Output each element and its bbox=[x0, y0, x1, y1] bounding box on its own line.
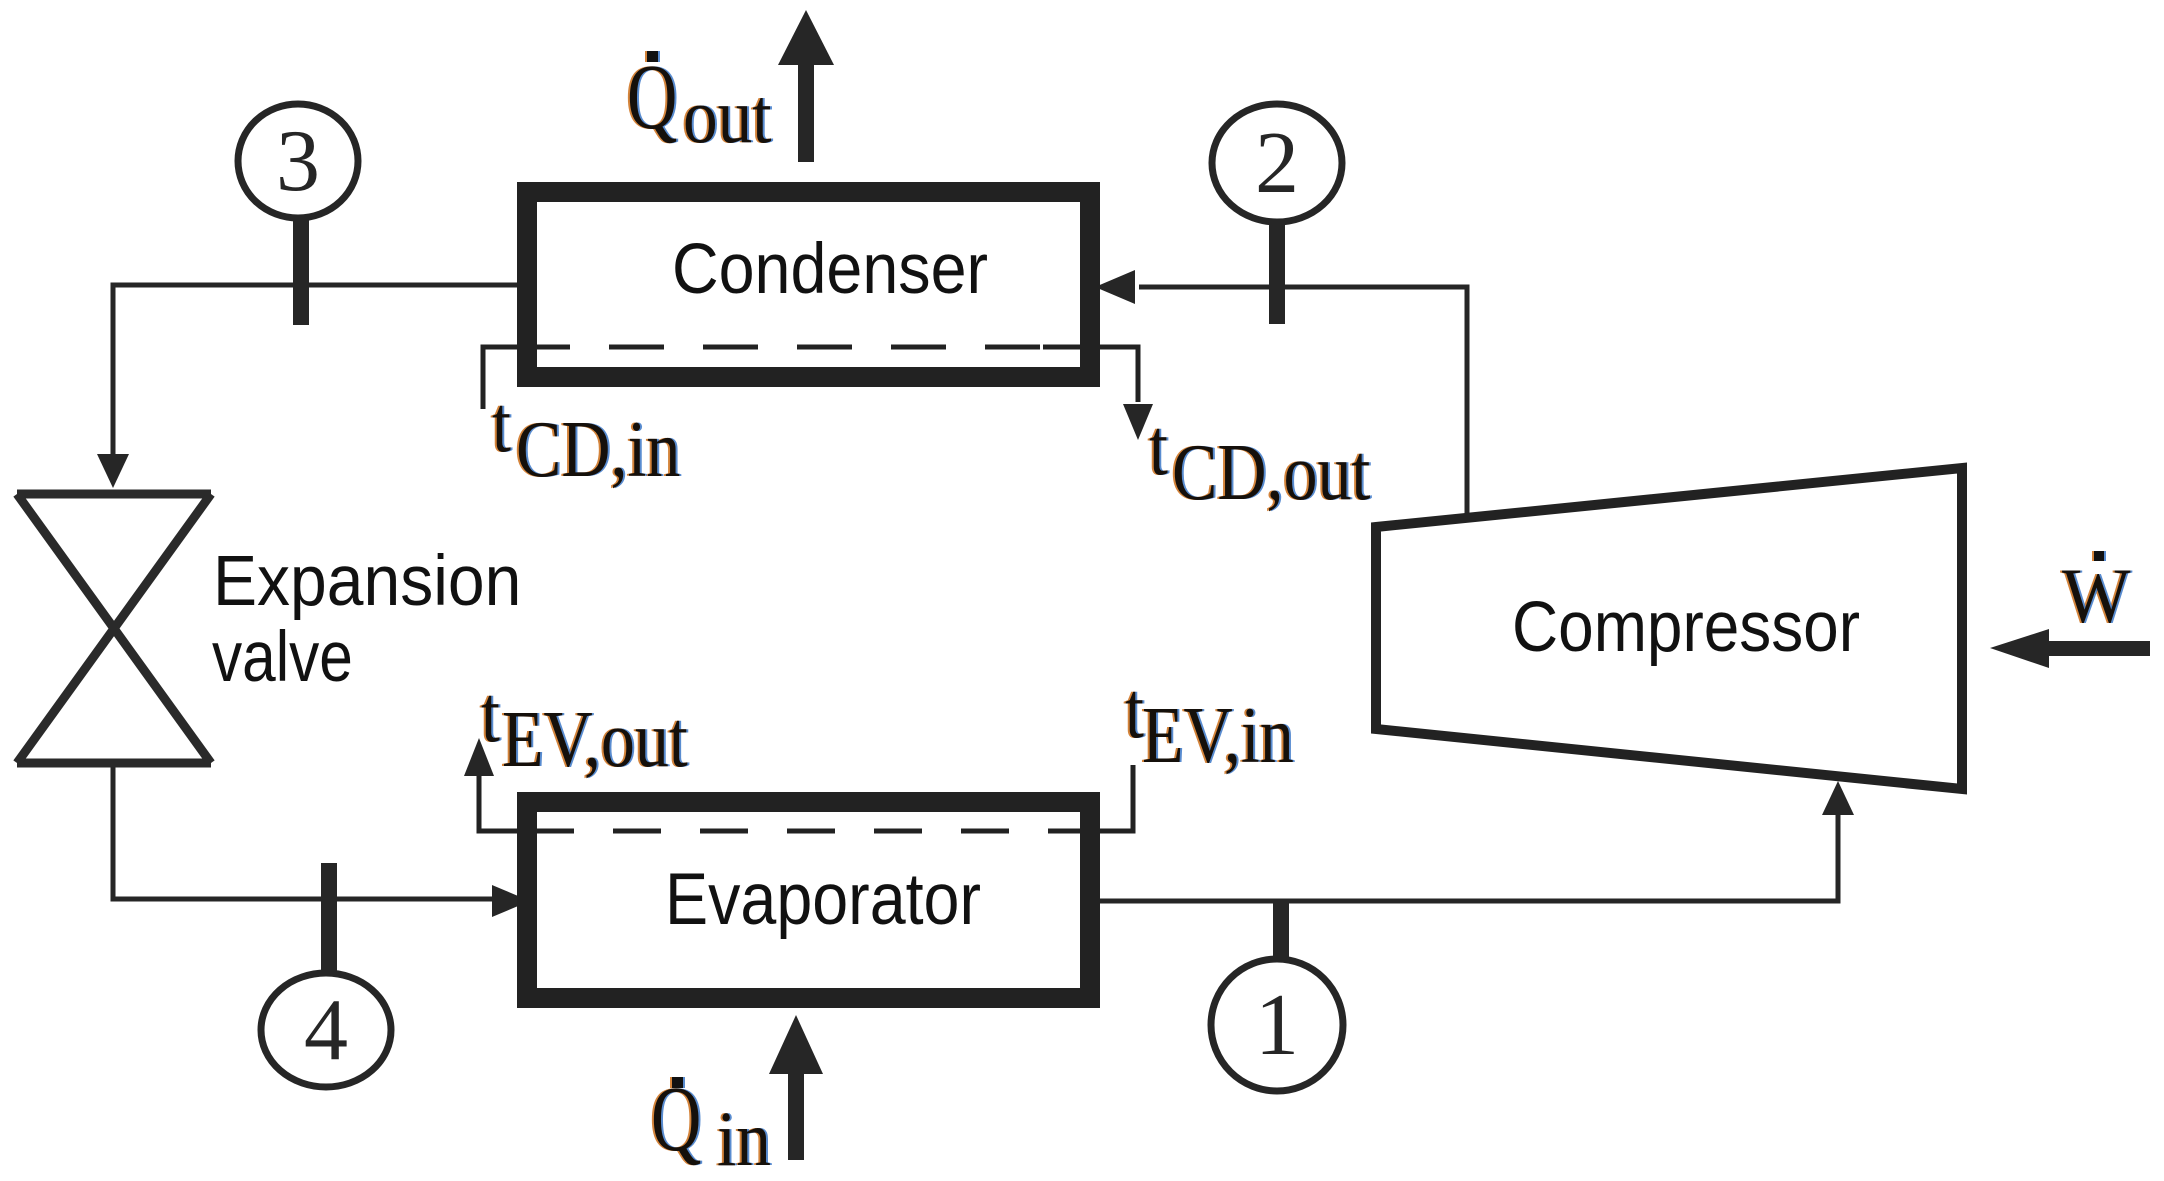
compressor label bbox=[1512, 588, 1860, 667]
condenser label bbox=[672, 230, 988, 308]
node 4 tick bbox=[321, 863, 337, 973]
condenser dashed line bbox=[570, 345, 1043, 350]
svg-text:Condenser: Condenser bbox=[672, 230, 988, 308]
svg-text:3: 3 bbox=[276, 113, 320, 210]
svg-text:t: t bbox=[1149, 404, 1168, 492]
svg-text:1: 1 bbox=[1255, 977, 1299, 1074]
node 1 circle bbox=[1211, 959, 1343, 1091]
svg-text:2: 2 bbox=[1255, 115, 1299, 212]
svg-text:t: t bbox=[492, 381, 511, 469]
evaporator dash solid right + elbow to tEV,in bbox=[1049, 765, 1133, 831]
svg-text:t: t bbox=[481, 671, 500, 759]
svg-text:valve: valve bbox=[212, 616, 353, 696]
evaporator label bbox=[665, 858, 981, 940]
condenser dash solid left + elbow to tCD,in bbox=[483, 347, 570, 409]
expansion valve bbox=[17, 494, 211, 763]
node 2 tick bbox=[1269, 223, 1285, 324]
node 4 circle bbox=[261, 973, 391, 1087]
condenser dash solid right + elbow to tCD,out bbox=[1043, 347, 1153, 440]
node 2 circle bbox=[1212, 104, 1342, 222]
wire: condenser inlet from node 2 side bbox=[1095, 270, 1467, 519]
expansion valve label bbox=[213, 541, 521, 621]
W arrow bbox=[1990, 629, 2150, 668]
svg-text:CD,out: CD,out bbox=[1172, 429, 1371, 517]
tCD,out label bbox=[1149, 404, 1371, 517]
condenser box bbox=[527, 192, 1090, 377]
tEV,in label bbox=[1125, 667, 1294, 780]
svg-text:Compressor: Compressor bbox=[1512, 588, 1860, 667]
svg-text:Q: Q bbox=[627, 44, 677, 148]
evaporator box bbox=[527, 802, 1090, 998]
wire: expansion valve to evaporator bbox=[113, 767, 530, 917]
svg-text:W: W bbox=[2062, 554, 2131, 640]
compressor trapezoid bbox=[1376, 468, 1962, 789]
svg-text:Evaporator: Evaporator bbox=[665, 858, 981, 940]
Qin label bbox=[651, 1066, 771, 1181]
svg-text:Q: Q bbox=[651, 1066, 701, 1170]
W label bbox=[2062, 551, 2131, 640]
svg-text:EV,in: EV,in bbox=[1142, 692, 1294, 780]
evaporator dashed line bbox=[574, 829, 1049, 834]
node 3 tick bbox=[293, 218, 309, 325]
Qout arrow bbox=[778, 10, 834, 162]
Qin arrow bbox=[769, 1015, 823, 1160]
node 1 tick bbox=[1273, 902, 1289, 962]
svg-text:in: in bbox=[717, 1095, 771, 1181]
wire: condenser outlet to expansion valve bbox=[97, 285, 517, 488]
Qout label bbox=[627, 44, 772, 159]
svg-text:Expansion: Expansion bbox=[213, 541, 521, 621]
svg-text:CD,in: CD,in bbox=[516, 406, 680, 494]
tEV,out label bbox=[481, 671, 688, 784]
svg-text:out: out bbox=[683, 72, 772, 159]
svg-text:EV,out: EV,out bbox=[502, 696, 688, 784]
node 3 circle bbox=[238, 104, 358, 218]
wire: evaporator outlet to compressor bbox=[1100, 781, 1854, 901]
svg-text:4: 4 bbox=[304, 982, 348, 1079]
tCD,in label bbox=[492, 381, 680, 494]
evaporator dash solid left + elbow to tEV,out arrow bbox=[464, 738, 574, 831]
